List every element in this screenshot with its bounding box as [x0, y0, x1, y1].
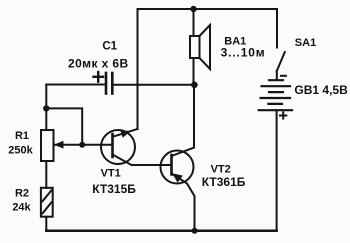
svg-text:20мк x 6В: 20мк x 6В [68, 57, 129, 71]
svg-text:SA1: SA1 [295, 37, 316, 49]
svg-text:VT2: VT2 [211, 163, 231, 175]
svg-text:VT1: VT1 [101, 168, 121, 180]
svg-text:R2: R2 [15, 187, 29, 199]
svg-text:24k: 24k [12, 201, 31, 213]
svg-text:3...10м: 3...10м [221, 46, 266, 60]
svg-text:C1: C1 [102, 41, 117, 53]
svg-text:GB1 4,5В: GB1 4,5В [294, 83, 348, 97]
svg-text:КТ361Б: КТ361Б [202, 175, 246, 189]
svg-text:250k: 250k [8, 144, 33, 156]
svg-text:R1: R1 [15, 130, 29, 142]
svg-text:КТ315Б: КТ315Б [92, 182, 136, 196]
